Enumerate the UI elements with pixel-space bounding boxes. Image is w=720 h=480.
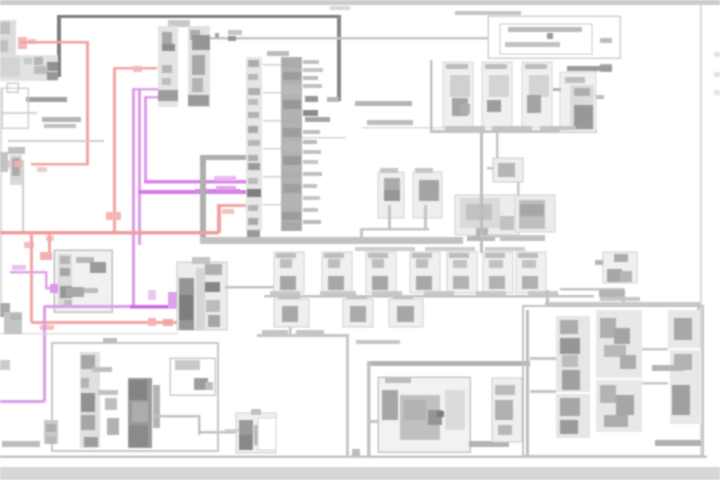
wire GRAY h y229: [360, 228, 429, 239]
wire faint h y138: [302, 137, 346, 139]
wire RED v x50 stub: [40, 233, 52, 260]
filter box (top cells group) border: [430, 60, 597, 133]
wire GRAY h y417 in power box: [154, 415, 238, 435]
wire bus3 y303: [545, 296, 700, 315]
wire RED v x32: [30, 233, 33, 322]
IC U9 (comp D): [515, 195, 555, 232]
resistor R10 (comp A above band): [378, 168, 404, 230]
wire MAGENTA v x145: [144, 96, 147, 182]
IC U18 block B4: [670, 350, 702, 424]
wire light h y113: [0, 112, 37, 114]
IC U3 right pin label texts: [303, 60, 330, 224]
wire light h y140: [8, 140, 104, 142]
wire RED h y322: [31, 318, 178, 330]
capacitor C16 cell row1: [516, 252, 546, 293]
wire MAGENTA h y89: [132, 88, 158, 91]
wire bus1 y296 with pin texts: [264, 291, 594, 298]
wire faint h y128 with net text: [362, 120, 462, 129]
capacitor C15 cell row1: [483, 252, 513, 293]
IC U5 (tall block B): [188, 26, 210, 107]
IC U17 block B3: [668, 310, 700, 348]
connector J2 left of power box: [2, 420, 58, 447]
IC U13 box bottom-middle: [378, 377, 470, 452]
wire MAGENTA v x139: [138, 88, 141, 245]
resistor R11 (comp B above band): [413, 168, 442, 230]
wire MAGENTA h y191: [138, 189, 248, 194]
IC U3 body: [281, 57, 302, 231]
wire GRAY h y236: [480, 235, 545, 238]
wire GRAY thick top horizontal: [57, 15, 338, 18]
capacitor C13 cell row1: [410, 252, 440, 293]
inductor L1 cell: [553, 66, 612, 132]
captions in audio box: [652, 365, 701, 446]
wire RED h y42: [20, 41, 88, 44]
wire GRAY h y287: [225, 286, 290, 289]
net label VIN (red): [18, 37, 36, 49]
diode D1 box in power box: [170, 358, 215, 395]
wire GRAY v x368: [367, 361, 379, 457]
pin texts along filter box bottom: [445, 126, 576, 130]
wire RED v x87: [86, 41, 89, 165]
IC U12 small cluster bottom-mid: [225, 409, 276, 453]
wire GRAY thick h y157: [202, 155, 246, 160]
IC U14 narrow box: [492, 378, 522, 442]
wire GRAY thick vertical to U3 right pins: [327, 15, 341, 102]
text label row3: [44, 124, 76, 128]
wire GRAY h y289 right: [560, 288, 625, 303]
capacitor C26 small: [107, 418, 119, 435]
capacitor C1 cell: [443, 62, 473, 128]
wire MAGENTA h y288: [45, 284, 58, 293]
IC U4 (tall block A): [158, 20, 190, 107]
wire MAGENTA h y97: [144, 96, 158, 99]
IC U15 block B1: [556, 316, 590, 392]
capacitor C20 cell row2: [274, 295, 309, 327]
capacitor C21 cell row2: [343, 295, 373, 327]
net texts under band: [355, 247, 525, 251]
wire RED h y68: [114, 66, 157, 72]
bus band GRAY y238: [200, 236, 545, 244]
wire GRAY h y38 to OSC box: [210, 30, 490, 41]
wire MAGENTA v x44: [43, 306, 46, 402]
wire MAGENTA v x46: [45, 271, 48, 288]
capacitor C11 cell row1: [322, 252, 352, 293]
caption under U13: [469, 441, 509, 447]
wire GRAY v x290: [289, 286, 292, 335]
text label row2: [42, 117, 81, 122]
box outline left: [2, 88, 28, 128]
power rail RED y232: [0, 212, 219, 248]
capacitor C17 cell row1 right: [595, 252, 637, 283]
sheet bottom border line: [0, 456, 707, 459]
wire RED h y164: [4, 160, 88, 172]
crystal Y1: [487, 133, 523, 196]
capacitor C12 cell row1: [366, 252, 396, 293]
regulator U11 dark block: [128, 378, 160, 448]
wire RED elbow to U3: [217, 204, 246, 233]
IC U20 block B6: [596, 380, 642, 432]
OSC box top-right: [455, 11, 620, 58]
wire GRAY v x348: [346, 336, 349, 457]
IC U3 title text: [267, 51, 289, 56]
wire MAGENTA h y272: [10, 265, 46, 274]
capacitor C22 cell row2: [389, 295, 423, 327]
IC U10 pin column in power box: [80, 352, 118, 448]
IC U3 pin-name column: [246, 57, 262, 237]
audio box bottom-right outline: [523, 306, 703, 456]
IC U6 (left-mid component): [54, 250, 112, 312]
capacitor C3 cell: [522, 62, 552, 128]
block left edge small parts: [0, 303, 22, 370]
IC U8 (comp C): [455, 195, 519, 236]
wire MAGENTA h y181: [144, 180, 248, 184]
capacitor C25 small: [105, 398, 117, 410]
wire GRAY thick vertical into U2: [57, 15, 61, 77]
wire MAGENTA h y306: [44, 290, 180, 309]
wire MAGENTA v x131 long: [132, 88, 135, 307]
sheet right border line: [700, 5, 702, 456]
wire bus2 y336 with texts: [257, 330, 349, 337]
text mark right of OSC: [600, 64, 612, 72]
IC U7 (dark cluster mid-left): [177, 257, 227, 330]
IC U16 block B2: [596, 310, 642, 378]
text label row1: [26, 97, 67, 102]
bottom taskbar strip: [0, 467, 720, 480]
resistor R1 small box: [7, 83, 18, 92]
wire MAGENTA h y401: [0, 400, 44, 403]
wire faint h y334: [0, 333, 178, 335]
top toolbar strip: [0, 0, 720, 5]
capacitor C2 cell: [482, 62, 512, 128]
wire GRAY thick v x202: [200, 155, 206, 243]
IC U3 inner pin stubs: [263, 64, 281, 206]
wires inside audio box: [526, 290, 668, 455]
capacitor C14 cell row1: [447, 252, 477, 293]
transistor Q1 group left edge: [0, 152, 22, 185]
net text above y363 wire: [356, 340, 400, 344]
wire RED v x114: [113, 67, 116, 233]
IC U19 block B5: [556, 394, 590, 438]
IC U2 (wide block left): [0, 55, 58, 81]
connector J1 (top-left): [0, 20, 16, 55]
wire GRAY v x481 through band: [480, 133, 483, 253]
wire GRAY thick h y363: [368, 361, 530, 366]
net label magenta pair: [214, 176, 236, 190]
capacitor C10 cell row1: [274, 252, 304, 293]
left page edge rule: [0, 88, 2, 310]
wire light v x23: [22, 160, 24, 232]
power box bottom-left outline: [52, 338, 218, 451]
net text mid: [355, 101, 412, 106]
text label small: [8, 147, 25, 154]
